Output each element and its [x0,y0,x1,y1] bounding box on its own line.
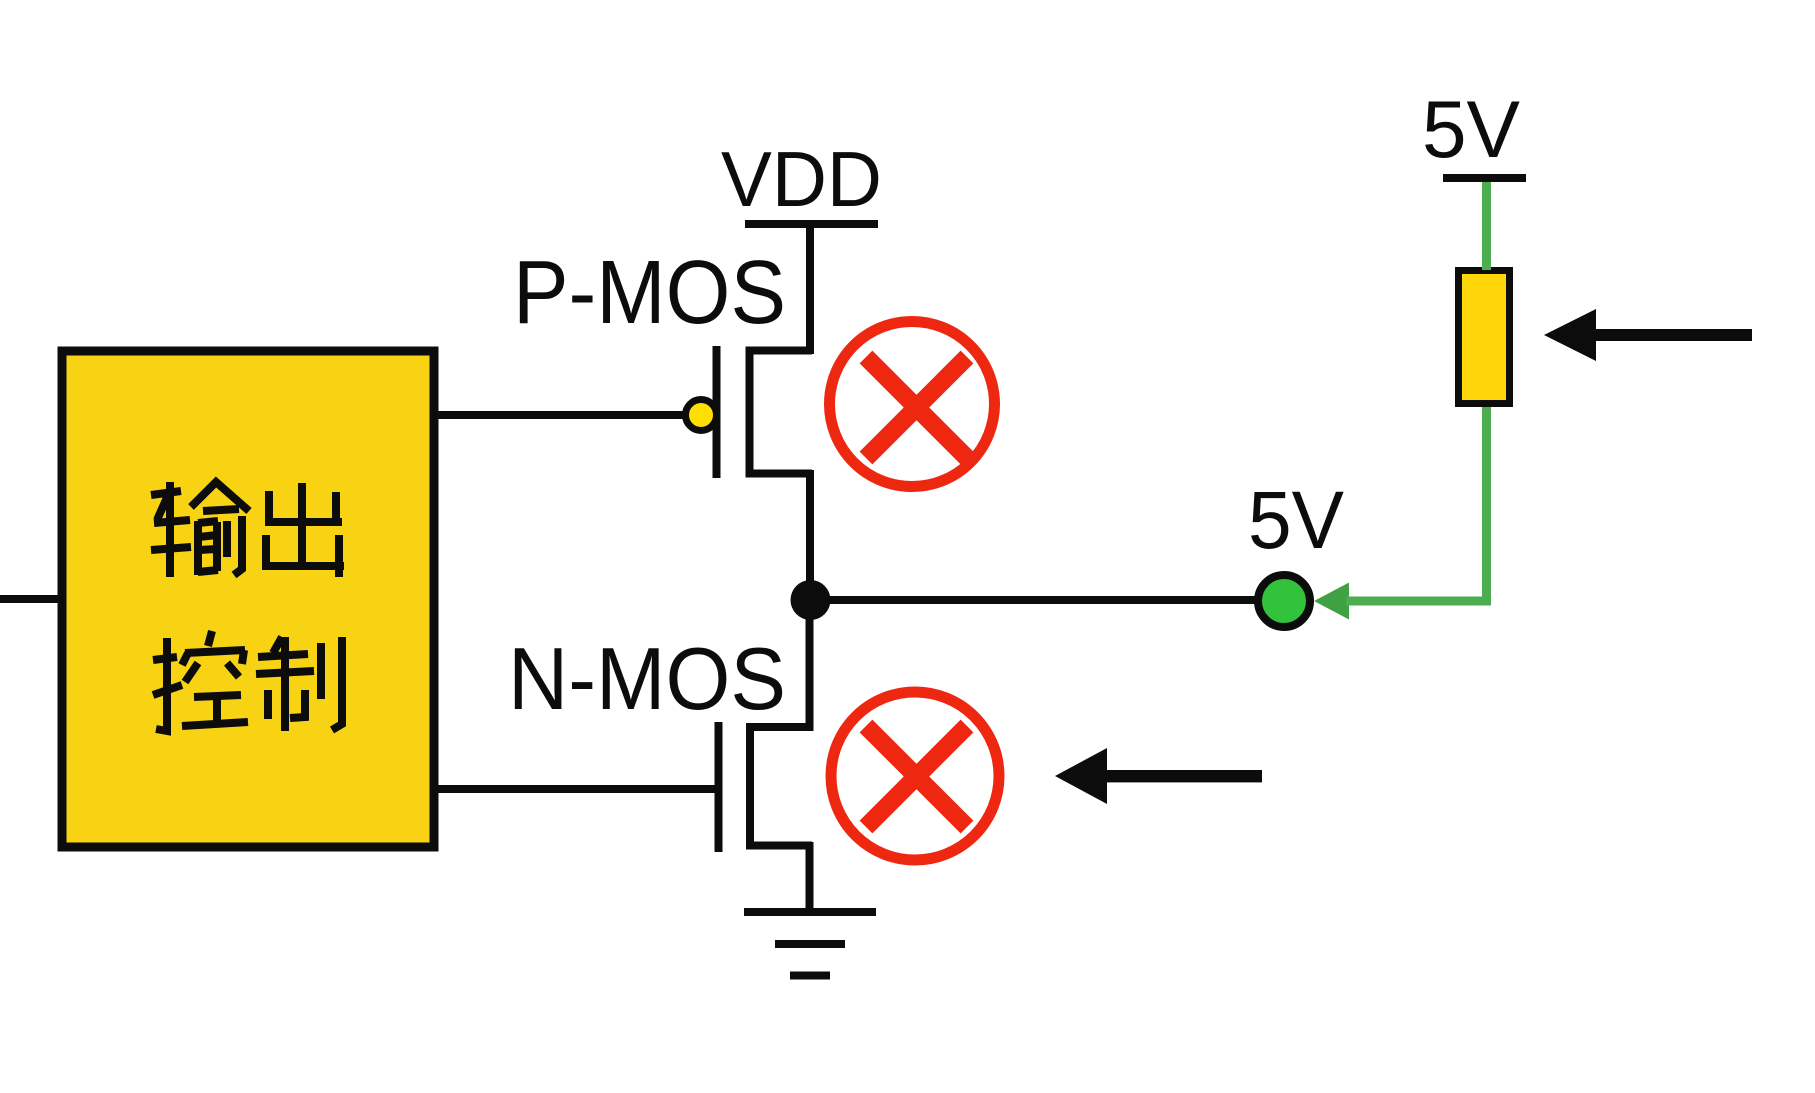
green wire from resistor to node [1346,407,1487,601]
ground [744,912,876,976]
CJK text 控 [153,631,248,731]
svg-text:N-MOS: N-MOS [508,629,786,728]
wire P-MOS source to output node [806,470,814,604]
wire VDD bar to P-MOS drain [806,224,814,354]
wire output node to 5V node [810,596,1256,604]
green current arrowhead into node [1314,583,1349,620]
red X no-conduction mark bottom [831,692,999,860]
arrow pointing at N-MOS X [1055,748,1262,804]
VDD supply bar [745,220,878,228]
svg-text:P-MOS: P-MOS [513,243,786,343]
wire box to P-MOS gate bubble [434,411,684,419]
transistor Q2 N-MOS channel bracket [750,727,812,846]
5V supply bar [1443,174,1526,182]
wire N-MOS drain to output node [806,596,814,731]
green wire 5V supply to resistor [1482,181,1491,270]
transistor Q2 N-MOS gate bar [715,722,723,852]
transistor Q1 P-MOS channel bracket [750,351,813,474]
wire input stub at left edge [0,595,62,603]
arrow pointing at resistor [1544,309,1752,361]
wire box to N-MOS gate [434,785,716,793]
svg-text:5V: 5V [1248,475,1344,566]
svg-text:VDD: VDD [721,135,882,223]
transistor Q1 P-MOS gate bubble [686,400,717,431]
output-control block (输出控制) [62,351,434,847]
node output junction dot [791,580,831,620]
svg-text:5V: 5V [1422,85,1520,175]
wire N-MOS source to ground [806,842,814,912]
CJK text 出 [264,483,344,577]
resistor R1 [1459,271,1510,404]
CJK text 制 [256,637,342,731]
CJK text 输 [151,482,249,577]
node 5V green circle [1258,575,1310,627]
transistor Q1 P-MOS gate bar [713,346,721,478]
red X no-conduction mark top [830,322,995,487]
